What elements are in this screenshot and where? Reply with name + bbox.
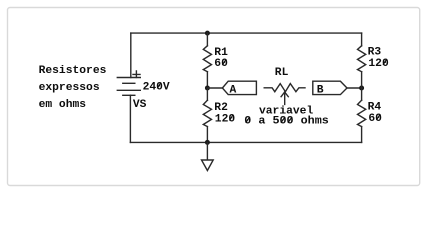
label R4 bbox=[368, 102, 382, 114]
annotation 0 a 500 ohms bbox=[244, 116, 329, 128]
svg-text:Resistores: Resistores bbox=[39, 65, 107, 77]
svg-text:R2: R2 bbox=[214, 102, 228, 114]
wire R4 to bottom rail bbox=[361, 127, 363, 143]
variable arrow bbox=[281, 92, 288, 104]
ground bbox=[202, 142, 214, 170]
svg-text:em ohms: em ohms bbox=[39, 99, 87, 111]
value 60 (R4) bbox=[368, 113, 382, 125]
svg-text:R4: R4 bbox=[368, 102, 382, 114]
battery + polarity mark bbox=[133, 71, 140, 77]
value 60 (R1) bbox=[214, 58, 228, 70]
wire node B to R4 bbox=[361, 88, 363, 100]
node A flag bbox=[222, 81, 256, 94]
svg-text:B: B bbox=[317, 84, 324, 96]
svg-text:0 a 500 ohms: 0 a 500 ohms bbox=[244, 116, 329, 128]
resistor R4 bbox=[358, 100, 366, 126]
svg-text:R1: R1 bbox=[214, 47, 228, 59]
node B label bbox=[317, 84, 324, 96]
node A label bbox=[230, 84, 237, 96]
junction dot ground node bbox=[205, 140, 210, 145]
resistor R2 bbox=[203, 100, 211, 126]
wire middle branch above R1 bbox=[206, 33, 208, 46]
label R3 bbox=[368, 47, 382, 59]
wire R2 to bottom rail bbox=[206, 127, 208, 143]
resistor R1 bbox=[203, 46, 211, 72]
label VS bbox=[133, 99, 147, 111]
resistor RL bbox=[264, 84, 305, 92]
svg-text:240V: 240V bbox=[143, 81, 170, 93]
label R2 bbox=[214, 102, 228, 114]
wire node A stub bbox=[207, 87, 222, 89]
value 120 (R3) bbox=[368, 58, 389, 70]
svg-text:R3: R3 bbox=[368, 47, 382, 59]
wire node A to R2 bbox=[206, 88, 208, 100]
battery VS plates bbox=[117, 78, 140, 96]
svg-text:expressos: expressos bbox=[39, 82, 100, 94]
wire left branch top (top rail to battery +) bbox=[130, 33, 132, 77]
label R1 bbox=[214, 47, 228, 59]
wire R1 to node A bbox=[206, 72, 208, 88]
svg-text:A: A bbox=[230, 84, 237, 96]
annotation variavel bbox=[259, 106, 313, 118]
wire bottom rail bbox=[130, 141, 361, 143]
svg-text:RL: RL bbox=[275, 67, 289, 79]
wire battery negative to bottom rail bbox=[129, 95, 131, 142]
junction dot node A bbox=[205, 86, 210, 91]
value 120 (R2) bbox=[215, 113, 236, 125]
junction dot node B bbox=[359, 86, 364, 91]
junction dot top of middle branch bbox=[205, 31, 210, 36]
annotation Resistores expressos em ohms bbox=[39, 65, 107, 111]
wire R3 to node B bbox=[361, 72, 363, 88]
label RL bbox=[275, 67, 289, 79]
wire right branch above R3 bbox=[361, 33, 363, 46]
wire top rail bbox=[131, 32, 362, 34]
value 240V bbox=[143, 81, 170, 93]
wire node B to right branch bbox=[347, 87, 362, 89]
resistor R3 bbox=[358, 46, 366, 72]
svg-text:VS: VS bbox=[133, 99, 147, 111]
node B flag bbox=[313, 81, 347, 94]
